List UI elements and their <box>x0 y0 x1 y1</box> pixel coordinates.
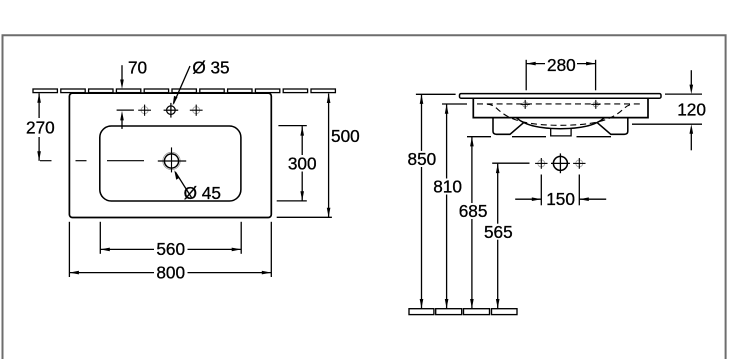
dashed centerline to drain <box>40 160 144 162</box>
dimension 810 vertical <box>442 104 467 309</box>
drain hole (O45) <box>158 147 186 172</box>
dimension 565 vertical <box>492 163 529 308</box>
svg-text:70: 70 <box>128 58 147 78</box>
tap hole left prepunch cross <box>138 105 151 116</box>
label O45 with leader <box>175 172 191 198</box>
dimension 560 <box>100 222 241 254</box>
svg-text:270: 270 <box>26 118 55 138</box>
svg-text:810: 810 <box>433 177 462 197</box>
mounting hole center circle <box>551 153 570 173</box>
label O35 with leader <box>174 66 190 104</box>
floor tile band <box>409 309 517 315</box>
left leg <box>493 118 524 135</box>
dimension 280 <box>526 60 595 91</box>
dimension 150 <box>515 175 606 206</box>
tap hole main (O35) <box>164 103 179 118</box>
dimension 500 <box>277 94 332 218</box>
hidden dashed bowl arc <box>487 104 634 125</box>
svg-text:560: 560 <box>156 239 185 259</box>
svg-text:800: 800 <box>156 262 185 282</box>
svg-text:500: 500 <box>331 126 360 146</box>
dimension 70 <box>117 65 134 129</box>
fascia tap cross left <box>521 100 530 109</box>
mounting hole right cross <box>573 158 585 169</box>
drain boss tab <box>551 129 571 136</box>
basin outer rectangle (800x500 top view) <box>69 93 271 217</box>
svg-text:300: 300 <box>288 153 317 173</box>
fascia tap cross right <box>591 100 600 109</box>
fascia body <box>473 98 648 117</box>
inner bowl rounded rectangle <box>100 126 241 201</box>
svg-text:150: 150 <box>546 189 575 209</box>
right leg <box>597 118 628 135</box>
dimension 270 <box>38 93 40 161</box>
svg-text:120: 120 <box>677 100 706 120</box>
svg-text:565: 565 <box>484 222 513 242</box>
bowl underside solid arc <box>517 118 605 129</box>
svg-text:850: 850 <box>408 149 437 169</box>
svg-text:Ø 35: Ø 35 <box>192 58 229 78</box>
wall tile band (top view) <box>33 89 335 93</box>
svg-text:Ø 45: Ø 45 <box>184 183 221 203</box>
svg-text:685: 685 <box>459 201 488 221</box>
dimension 300 <box>277 126 307 201</box>
mounting hole left cross <box>535 158 547 169</box>
tap hole right prepunch cross <box>190 105 203 116</box>
hidden dashed rim line <box>477 103 643 105</box>
svg-text:280: 280 <box>547 55 576 75</box>
dimension 120 <box>632 70 702 150</box>
rim bar <box>460 94 662 99</box>
dimension 685 vertical <box>467 137 611 309</box>
dimension 850 vertical <box>416 94 456 308</box>
dimension 800 <box>69 222 271 277</box>
